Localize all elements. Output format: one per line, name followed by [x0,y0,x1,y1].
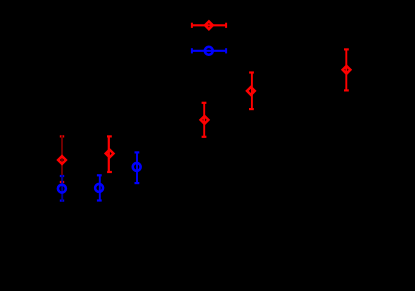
red point R3 error bar line [203,103,205,137]
red point R3 bottom cap [202,136,207,138]
red point R1 error bar line (dark, drawn over cap) [61,135,63,182]
red point R3 top cap [202,102,207,104]
red point R4 error bar line [251,73,253,110]
legend red errorbar sample line [192,24,226,26]
red point R2 open diamond marker [106,150,114,158]
blue point B1 error bar line (dark, crosses caps) [61,175,63,202]
red point R4 open diamond marker [247,87,255,95]
blue point B1 open circle marker [58,185,66,193]
legend red open diamond marker [205,21,213,29]
legend blue open circle marker [205,47,213,55]
legend red sample right cap [225,23,227,28]
red point R1 bottom cap [60,181,64,183]
legend blue errorbar sample line [192,50,226,52]
red point R1 top cap [60,135,64,137]
red point R4 bottom cap [249,108,254,110]
legend blue sample right cap [225,48,227,53]
red point R3 open diamond marker [201,116,209,124]
blue point B3 top cap [135,151,140,153]
blue point B3 open circle marker [133,163,141,171]
red point R5 bottom cap [344,89,349,91]
legend red sample left cap [191,23,193,28]
red point R2 bottom cap [107,171,112,173]
red point R4 top cap [249,71,254,73]
blue point B1 bottom cap [60,200,64,202]
blue point B3 bottom cap [135,182,140,184]
legend blue sample left cap [191,48,193,53]
blue point B2 error bar line [99,175,101,200]
blue point B2 open circle marker [95,184,103,192]
blue point B1 top cap [60,175,64,177]
red point R5 open diamond marker [343,66,351,74]
blue point B1 bottom cap split (dark line over) [61,200,63,202]
red point R5 error bar line [345,49,347,90]
blue point B3 error bar line [136,152,138,183]
red point R2 error bar line [108,136,110,172]
red point R2 top cap [107,135,112,137]
blue point B2 top cap [97,174,102,176]
blue point B2 bottom cap [97,199,102,201]
red point R1 open diamond marker [58,156,66,164]
red point R5 top cap [344,48,349,50]
